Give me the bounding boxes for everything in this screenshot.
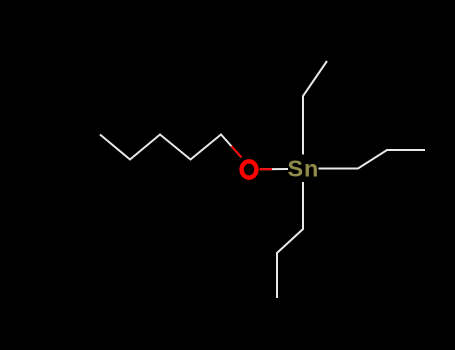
svg-text:Sn: Sn (288, 156, 320, 182)
